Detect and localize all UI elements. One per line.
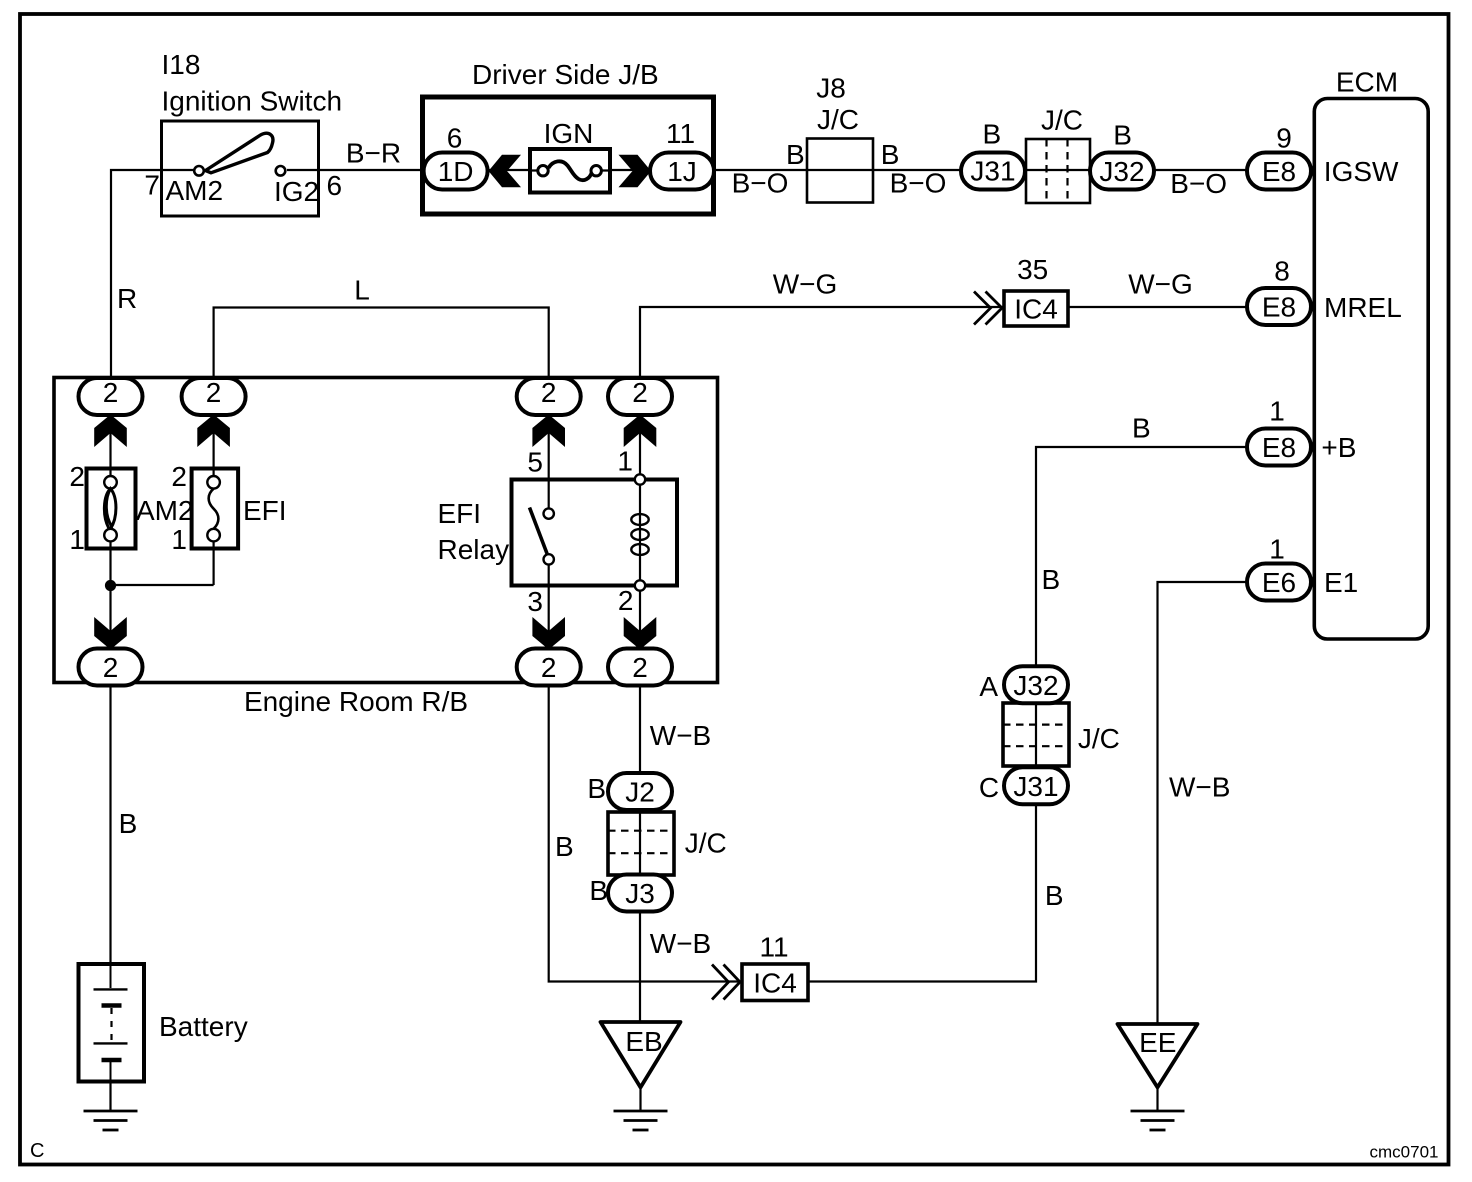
svg-text:Battery: Battery: [159, 1011, 248, 1042]
svg-text:2: 2: [632, 377, 648, 408]
svg-text:B: B: [587, 773, 606, 804]
svg-text:J32: J32: [1013, 670, 1058, 701]
svg-text:2: 2: [541, 652, 557, 683]
svg-text:I18: I18: [162, 49, 201, 80]
svg-text:W−G: W−G: [1128, 269, 1193, 300]
svg-text:B: B: [1042, 564, 1061, 595]
svg-text:6: 6: [327, 170, 343, 201]
svg-text:IGN: IGN: [544, 118, 594, 149]
svg-text:2: 2: [69, 461, 85, 492]
svg-text:E8: E8: [1262, 156, 1296, 187]
svg-text:1: 1: [1269, 396, 1285, 427]
svg-text:2: 2: [618, 585, 634, 616]
svg-text:J8: J8: [816, 73, 846, 104]
svg-text:C: C: [30, 1140, 44, 1162]
svg-text:C: C: [979, 772, 999, 803]
svg-text:2: 2: [103, 377, 119, 408]
svg-text:J31: J31: [1013, 771, 1058, 802]
svg-text:Ignition Switch: Ignition Switch: [162, 86, 343, 117]
svg-text:B: B: [119, 808, 138, 839]
svg-text:W−B: W−B: [650, 720, 711, 751]
svg-text:1: 1: [1269, 534, 1285, 565]
svg-text:AM2: AM2: [136, 495, 194, 526]
svg-text:+B: +B: [1321, 432, 1356, 463]
svg-text:EFI: EFI: [243, 495, 287, 526]
svg-text:B: B: [555, 831, 574, 862]
svg-text:1: 1: [69, 524, 85, 555]
svg-text:1: 1: [617, 446, 633, 477]
svg-text:B−O: B−O: [1170, 168, 1227, 199]
svg-text:2: 2: [171, 461, 187, 492]
svg-text:B: B: [982, 119, 1001, 150]
svg-text:J/C: J/C: [1041, 105, 1083, 136]
svg-text:W−B: W−B: [1169, 772, 1230, 803]
svg-text:J2: J2: [625, 777, 655, 808]
svg-text:2: 2: [632, 652, 648, 683]
svg-text:IC4: IC4: [753, 968, 797, 999]
svg-text:J3: J3: [625, 878, 655, 909]
svg-text:1: 1: [171, 524, 187, 555]
svg-text:B−O: B−O: [890, 168, 947, 199]
svg-text:1J: 1J: [667, 156, 697, 187]
svg-text:35: 35: [1017, 254, 1048, 285]
svg-text:2: 2: [541, 377, 557, 408]
svg-text:2: 2: [103, 652, 119, 683]
svg-text:EFI: EFI: [438, 498, 482, 529]
svg-text:B: B: [1132, 413, 1151, 444]
svg-text:AM2: AM2: [166, 175, 224, 206]
svg-text:E1: E1: [1324, 567, 1358, 598]
svg-text:9: 9: [1276, 123, 1292, 154]
svg-text:J/C: J/C: [817, 104, 859, 135]
svg-text:3: 3: [527, 586, 543, 617]
svg-text:6: 6: [447, 123, 463, 154]
svg-text:B: B: [786, 139, 805, 170]
svg-text:B: B: [881, 139, 900, 170]
svg-text:J32: J32: [1099, 156, 1144, 187]
svg-text:J/C: J/C: [1078, 723, 1120, 754]
svg-text:11: 11: [759, 932, 788, 963]
svg-text:R: R: [117, 283, 137, 314]
svg-text:J31: J31: [970, 156, 1015, 187]
svg-text:B−O: B−O: [732, 168, 789, 199]
svg-text:2: 2: [206, 377, 222, 408]
svg-text:IC4: IC4: [1014, 294, 1058, 325]
svg-text:B: B: [1045, 880, 1064, 911]
svg-text:1D: 1D: [438, 156, 474, 187]
svg-text:B: B: [1113, 120, 1132, 151]
svg-text:5: 5: [527, 447, 543, 478]
svg-text:B−R: B−R: [346, 138, 401, 169]
svg-text:EE: EE: [1139, 1027, 1176, 1058]
svg-text:MREL: MREL: [1324, 292, 1402, 323]
svg-text:A: A: [979, 671, 998, 702]
svg-text:E6: E6: [1262, 567, 1296, 598]
svg-text:Relay: Relay: [438, 534, 510, 565]
svg-text:ECM: ECM: [1336, 67, 1398, 98]
svg-text:Driver Side J/B: Driver Side J/B: [472, 59, 659, 90]
svg-text:W−G: W−G: [773, 269, 838, 300]
svg-text:Engine Room R/B: Engine Room R/B: [244, 686, 468, 717]
svg-text:8: 8: [1274, 256, 1290, 287]
svg-text:E8: E8: [1262, 432, 1296, 463]
svg-text:L: L: [354, 275, 370, 306]
svg-text:E8: E8: [1262, 292, 1296, 323]
svg-text:IG2: IG2: [274, 176, 319, 207]
svg-text:EB: EB: [625, 1026, 662, 1057]
svg-text:cmc0701: cmc0701: [1370, 1143, 1439, 1162]
svg-text:J/C: J/C: [685, 828, 727, 859]
svg-text:11: 11: [666, 118, 695, 149]
svg-text:B: B: [589, 875, 608, 906]
svg-text:IGSW: IGSW: [1324, 156, 1399, 187]
svg-text:7: 7: [144, 170, 160, 201]
svg-text:W−B: W−B: [650, 928, 711, 959]
